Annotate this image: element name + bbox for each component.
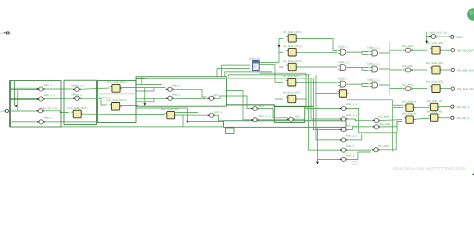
vertical bundle x317.5 with arrow end (317, 127, 319, 162)
wire bundle y72 (225, 71, 272, 73)
port stub wires inside R4 (136, 83, 162, 85)
and gate G18 (339, 138, 347, 142)
and gate G16 (339, 117, 347, 121)
wire long light y78.5 (145, 78, 313, 80)
svg-text:HR_AD_1: HR_AD_1 (457, 105, 470, 109)
wire B9 out (296, 98, 307, 100)
register B5 (286, 35, 298, 42)
wire B13 to pin P3 (441, 88, 450, 90)
output pin P3 (449, 87, 455, 90)
wire R4 to G12 upper (226, 91, 250, 120)
svg-text:SUB_CLK: SUB_CLK (249, 58, 260, 61)
frame rect R5 flat (224, 121, 347, 128)
wire bundle y68.6 (217, 68, 250, 70)
svg-text:HR_AD_2: HR_AD_2 (457, 116, 470, 120)
wire G13 out (294, 118, 305, 120)
svg-text:SUB_1: SUB_1 (339, 46, 348, 49)
svg-text:R3_SUB_NOT7: R3_SUB_NOT7 (283, 75, 302, 78)
svg-text:CLK_SUB_NOT: CLK_SUB_NOT (161, 108, 180, 111)
svg-text:AND_3: AND_3 (346, 154, 355, 157)
wire G22 to B12 (412, 69, 427, 71)
svg-text:W5_AND: W5_AND (378, 145, 389, 148)
svg-text:HR_WR_OUT: HR_WR_OUT (457, 68, 474, 72)
page background (0, 0, 474, 175)
top gate G24 with pin (427, 36, 431, 38)
wire G15 out jog down (346, 109, 397, 133)
svg-text:R4_SUB_NOT7: R4_SUB_NOT7 (283, 92, 302, 95)
svg-text:AND_2: AND_2 (346, 145, 355, 148)
svg-text:CLK_SUB_NOT1: CLK_SUB_NOT1 (68, 107, 89, 110)
svg-text:R0_SUB_NOT5: R0_SUB_NOT5 (283, 31, 302, 34)
wire G5 out to B2 (80, 88, 110, 89)
register B7 (286, 63, 298, 70)
svg-text:W2_SUB_NOT: W2_SUB_NOT (426, 81, 444, 84)
not gate G13 (287, 117, 295, 121)
svg-text:AND_1_2: AND_1_2 (44, 94, 56, 97)
vertical feed x279 to D column (278, 38, 280, 62)
svg-text:HR_RD_OUT: HR_RD_OUT (457, 49, 474, 53)
thick wire R4 bottom to R6 (226, 105, 313, 107)
wire G18 out jog to G26 second (346, 134, 361, 140)
ff B15 (429, 103, 440, 110)
junction dot (187, 121, 189, 123)
wire B3 out right (120, 105, 138, 107)
junction dot (15, 105, 17, 107)
wire pin to gate G3 (9, 110, 39, 112)
register B9 (286, 95, 298, 102)
svg-text:NOT: NOT (259, 105, 265, 108)
wire GD5 out to G22 (379, 69, 403, 70)
wire G26 out jog (379, 121, 402, 127)
wire B7 out to GD2 (297, 66, 338, 68)
wire R3 internal y93.9 (98, 93, 136, 95)
wire G24 to pin P0 (436, 36, 450, 38)
svg-text:AND_1_2: AND_1_2 (346, 114, 358, 117)
ff B16 (404, 116, 415, 123)
junction arrow below B2 branch (143, 103, 146, 106)
flip-flop B4 (165, 112, 177, 119)
not gate G2 (37, 97, 45, 101)
svg-text:SUB_2: SUB_2 (339, 78, 348, 81)
nand gate G6 (73, 96, 81, 100)
wire GD2 out to GD5 (347, 67, 369, 69)
not gate G9 (207, 96, 215, 100)
and gate G17 (339, 128, 347, 132)
wire G6 out to B3 (80, 98, 107, 105)
wire G27 out jog (379, 133, 396, 150)
output pin P0 (449, 35, 454, 38)
dark corner mark bottom-right (472, 173, 474, 175)
flip-flop B2 (110, 85, 122, 93)
output ff B13 (430, 85, 442, 93)
wire B5 out to GD1 (297, 37, 334, 39)
flip-flop B1 (71, 110, 83, 118)
svg-text:NAND_1_2: NAND_1_2 (72, 84, 86, 87)
svg-text:HR_ALE_OUT: HR_ALE_OUT (457, 87, 474, 91)
svg-text:WR3: WR3 (457, 36, 463, 39)
output pin P5 (449, 116, 454, 119)
and gate G19 (339, 148, 347, 152)
svg-text:NOT: NOT (295, 115, 301, 118)
vertical bundle x306 (306, 73, 339, 108)
vertical x389.7 (389, 42, 391, 95)
buffer gate G23 (403, 87, 412, 91)
wire bundle up-left of blue box y65 (222, 64, 250, 66)
vertical feed x275 to B8 (274, 65, 276, 83)
flip-flop B10 (337, 90, 348, 98)
wire G19 out to G27 (346, 149, 371, 151)
stub to B14 upper (393, 104, 404, 106)
not gate G3 (36, 109, 44, 113)
wire B14 to B15 (413, 106, 430, 108)
wire vertical x14.5 (14, 81, 16, 106)
stub to B14 lower (393, 107, 404, 109)
wire B11 to pin P1 (441, 49, 450, 51)
svg-text:NOT_1_2: NOT_1_2 (259, 115, 271, 118)
svg-text:AND_2: AND_2 (172, 93, 181, 96)
faint equals mark bottom-left (352, 162, 358, 165)
wire y121.6 to R5 (187, 121, 223, 123)
svg-text:https://blog.csdn.net/TTTTTbs6: https://blog.csdn.net/TTTTTbs615185 (393, 166, 467, 171)
and gate GD5 (370, 66, 378, 72)
output pin P4 (449, 105, 454, 108)
svg-text:W1_SUB_NOT: W1_SUB_NOT (426, 62, 444, 65)
vertical bundle x311 (311, 79, 339, 120)
wire to G20 (318, 158, 340, 160)
output pin P2 (449, 68, 455, 71)
flip-flop B3 (110, 103, 122, 111)
wire G17 out to G26 (346, 127, 371, 130)
svg-text:W0_SUB_NOT: W0_SUB_NOT (426, 42, 444, 45)
svg-text:NOT: NOT (214, 94, 220, 97)
clock component U1 blue (253, 60, 260, 70)
svg-text:ss:1: ss:1 (0, 32, 5, 35)
wire bus to gate G1 (10, 87, 39, 89)
wire to gate G4 (10, 121, 39, 123)
not gate G7 (166, 87, 174, 91)
wire G8 out to G9 (173, 97, 206, 99)
wire GD6 out to G23 (379, 85, 403, 89)
inner top line of R4 (136, 77, 226, 79)
svg-text:W2_AND: W2_AND (402, 83, 413, 86)
wire GD3 out to GD6 (347, 83, 369, 86)
not gate G12 (251, 118, 259, 122)
wire B2 branch vertical (144, 88, 146, 104)
wire G1 out to G5 (44, 88, 73, 90)
wire into B7 (279, 66, 283, 68)
wire GD1 out to GD4 (347, 51, 369, 54)
wire G8 in (136, 97, 166, 99)
wire B4 down vertical (182, 115, 184, 127)
wire into B10 (316, 93, 339, 95)
svg-text:W4_SUB_N8: W4_SUB_N8 (427, 111, 443, 114)
vertical x397 stub (396, 121, 398, 132)
and gate GD4 (370, 50, 378, 56)
wire G10 out to R5 (214, 115, 223, 121)
wire G16 out jog to G25 (346, 119, 371, 121)
not gate G1 (37, 87, 45, 91)
small port rect below R5 left end (226, 128, 235, 134)
svg-text:NOT_2: NOT_2 (214, 111, 223, 114)
vertical bundle x313.5 (314, 79, 340, 130)
register B6 (286, 49, 298, 56)
svg-text:W4_AND: W4_AND (380, 123, 391, 126)
svg-text:SUB_1_2: SUB_1_2 (339, 61, 351, 64)
not gate G10 (207, 113, 215, 117)
output ff B11 (430, 46, 442, 54)
svg-text:SUB1_1_2: SUB1_1_2 (367, 63, 380, 66)
svg-text:CLK_OUT_IN: CLK_OUT_IN (41, 107, 57, 110)
svg-text:W0_AND: W0_AND (402, 45, 413, 48)
nand gate G5 (73, 87, 81, 91)
buffer gate G22 (403, 68, 412, 72)
svg-text:NAND_2: NAND_2 (72, 93, 83, 96)
input pin circle (3, 110, 8, 113)
wire G3 out to B1 (43, 111, 69, 113)
svg-text:AND_1: AND_1 (44, 84, 53, 87)
toolbar snippet top-left (0, 32, 11, 35)
output pin P1 (449, 49, 455, 52)
wire bundle y73.2 right (260, 72, 307, 74)
wire bottom long (61, 126, 224, 128)
wire G23 to B13 (412, 88, 427, 90)
svg-text:AND_2_2: AND_2_2 (346, 135, 358, 138)
wire G7 out jog to G9 (173, 89, 206, 97)
wire into B6 (279, 51, 283, 53)
wire blue box right y62.5 (259, 62, 279, 64)
svg-text:CLK_SUB_NOT3: CLK_SUB_NOT3 (107, 81, 128, 84)
wire R3 internal y97.8 (98, 97, 111, 99)
svg-text:W4_SUB_N: W4_SUB_N (402, 113, 416, 116)
wire y108 to B4 region (136, 108, 187, 122)
output ff B12 (430, 66, 442, 74)
wire B4 upper out (175, 112, 198, 114)
wire G9 out to R4 edge (214, 96, 226, 98)
svg-text:WR3_OUT_1a: WR3_OUT_1a (430, 32, 448, 35)
svg-text:W3_AND: W3_AND (379, 116, 390, 119)
wire bundle y74.9 (228, 74, 310, 76)
wire into B9 (275, 98, 283, 100)
not gate G24 (429, 34, 437, 38)
svg-text:IN_1: IN_1 (0, 110, 6, 113)
frame rect R2 (64, 80, 97, 124)
svg-text:W1_AND: W1_AND (402, 65, 413, 68)
wire B10 out long to vertical (347, 99, 393, 101)
wire B6 out to GD1/GD2 (297, 51, 338, 53)
and gate GD3 (338, 81, 346, 87)
svg-text:W3_SUB_N8: W3_SUB_N8 (427, 100, 443, 103)
svg-text:SUB0_1_2: SUB0_1_2 (367, 47, 380, 50)
not gate G11 (251, 106, 259, 110)
wire B8 out to GD3 (297, 81, 338, 83)
dark left edge of R1 (9, 81, 11, 128)
and gate G25 (372, 118, 380, 122)
wire blue box right y64.5 (259, 64, 275, 66)
svg-text:AND_2: AND_2 (44, 116, 53, 119)
wire B16 to B17 (413, 118, 430, 119)
vertical bundle x308.5 (309, 75, 340, 150)
wire into B8 (275, 81, 283, 83)
svg-text:R1_SUB_NOT6: R1_SUB_NOT6 (283, 45, 302, 48)
frame rect R4 (136, 77, 226, 106)
wire B2 out to G7 (121, 87, 166, 89)
and gate G27 (372, 148, 380, 152)
wire G4 out right (44, 121, 97, 123)
vertical feed x392.7 (392, 100, 394, 152)
svg-text:CLK_SUB_NOT4: CLK_SUB_NOT4 (106, 99, 127, 102)
wire G2 out to G6 (44, 97, 73, 99)
wire B17 to pin P5 (438, 117, 449, 119)
frame rect R1 (10, 81, 61, 128)
green ball icon top-right corner (467, 8, 474, 20)
svg-text:AND_1_2: AND_1_2 (346, 103, 358, 106)
and gate GD1 (338, 49, 346, 55)
frame rect R6 (274, 106, 305, 122)
vertical bundle x316 (316, 75, 339, 140)
wire GD4 out to G21 (379, 50, 403, 53)
register B8 (286, 79, 298, 86)
wire B12 to pin P2 (441, 69, 450, 71)
junction arrow on x279 (278, 45, 281, 48)
wire R4 to G11 (226, 96, 250, 109)
wire B1 out right (82, 113, 165, 115)
not gate G8 (166, 96, 174, 100)
svg-text:SUB2_1_2: SUB2_1_2 (367, 79, 380, 82)
buffer gate G21 (403, 48, 412, 52)
ff B17 (429, 114, 440, 121)
not gate G4 (37, 120, 45, 124)
wire vertical x17.5 (17, 90, 19, 111)
wire B15 to pin P4 (438, 106, 449, 108)
wire G11 out jog to G13 (258, 109, 288, 118)
and gate G20 (339, 157, 347, 161)
wire G12 out to G13 (258, 119, 288, 121)
and gate G15 (339, 106, 347, 110)
svg-text:AND_1: AND_1 (172, 84, 181, 87)
svg-text:R2_SUB_NOT6: R2_SUB_NOT6 (283, 60, 302, 63)
wire B4 out to G10 (175, 114, 207, 116)
ff B14 (404, 104, 415, 111)
and gate GD6 (370, 82, 378, 88)
wire G21 to B11 (412, 49, 427, 51)
and gate GD2 (338, 65, 346, 71)
svg-text:W3_SUB_N: W3_SUB_N (402, 100, 416, 103)
wire G25 out to B16 (379, 119, 402, 122)
wire G20 out jog to G27 second (346, 152, 371, 159)
frame rect R3 (98, 81, 136, 123)
wire bus to gate G2 (10, 97, 39, 99)
wire into B5 (279, 37, 283, 39)
and gate G26 (372, 125, 380, 129)
